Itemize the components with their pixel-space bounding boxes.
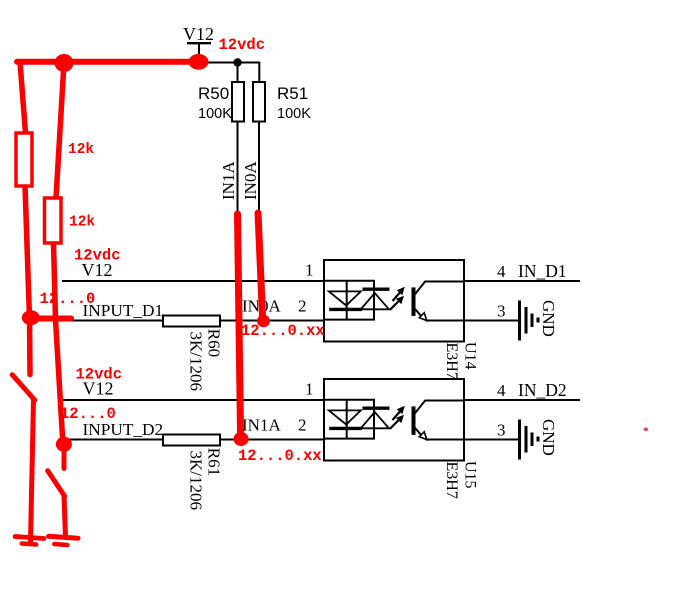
svg-text:12...0.xx: 12...0.xx bbox=[238, 447, 322, 465]
svg-text:4: 4 bbox=[497, 262, 506, 281]
ground red (channel 2) bbox=[49, 536, 79, 538]
red junction dot at V12 bbox=[189, 54, 209, 70]
U14 light arrow upper bbox=[393, 287, 405, 301]
U15 phototransistor bbox=[414, 401, 465, 440]
U15 LED diode (down) bbox=[329, 410, 362, 428]
optocoupler U14 E3H7 box bbox=[324, 260, 479, 380]
resistor R60 3K/1206 bbox=[163, 316, 224, 392]
wire pin 4 IN_D2 bbox=[464, 399, 580, 401]
svg-text:IN1A: IN1A bbox=[219, 161, 238, 200]
svg-text:3: 3 bbox=[497, 421, 506, 440]
red junction dot at INPUT_D2 bbox=[56, 437, 72, 452]
ground symbol (channel 1) bbox=[520, 300, 559, 341]
ground symbol (channel 2) bbox=[520, 419, 559, 460]
svg-text:12...0: 12...0 bbox=[60, 405, 116, 423]
svg-text:GND: GND bbox=[539, 300, 558, 337]
resistor R61 3K/1206 bbox=[163, 435, 224, 511]
wire pin 3 to ground bbox=[464, 320, 519, 322]
wire R50 bottom down (net IN1A) bbox=[237, 121, 239, 217]
svg-text:12k: 12k bbox=[68, 142, 94, 158]
svg-text:IN0A: IN0A bbox=[241, 161, 260, 200]
red annotations: drawn over schematic bbox=[12, 62, 262, 545]
U14 phototransistor bbox=[414, 282, 465, 321]
U14 LED diode (down) bbox=[329, 291, 362, 309]
wire red vertical branch 2 bbox=[54, 63, 65, 437]
svg-text:E3H7: E3H7 bbox=[443, 462, 460, 499]
ground red (channel 1) bbox=[15, 537, 44, 539]
wire red left vertical branch 1 bbox=[20, 62, 30, 375]
svg-text:12k: 12k bbox=[69, 215, 95, 231]
wire pin 4 IN_D1 bbox=[464, 280, 580, 282]
wire red IN1A vertical bbox=[238, 214, 241, 433]
resistor 12k (branch 1) bbox=[16, 133, 32, 186]
svg-text:V12: V12 bbox=[183, 24, 214, 44]
optocoupler U15 E3H7 box bbox=[324, 379, 479, 499]
svg-text:12vdc: 12vdc bbox=[74, 247, 121, 265]
svg-text:U15: U15 bbox=[462, 461, 479, 489]
svg-text:R61: R61 bbox=[205, 448, 224, 476]
red junction dot at INPUT_D1 bbox=[22, 310, 40, 325]
junction dot at V12 node bbox=[233, 58, 241, 66]
svg-text:R51: R51 bbox=[277, 84, 308, 103]
svg-text:U14: U14 bbox=[462, 342, 479, 370]
svg-text:2: 2 bbox=[298, 297, 307, 316]
wire red below switch 1 bbox=[31, 400, 34, 541]
resistor R51 bbox=[253, 82, 311, 122]
svg-text:3: 3 bbox=[497, 302, 506, 321]
wire from V12 node to R50/R51 tops bbox=[199, 62, 259, 83]
svg-text:IN_D1: IN_D1 bbox=[518, 261, 567, 281]
svg-text:100K: 100K bbox=[277, 106, 311, 122]
switch blade (channel 2) bbox=[48, 471, 65, 497]
svg-text:12vdc: 12vdc bbox=[219, 36, 266, 54]
U15 LED diode (up) bbox=[361, 408, 390, 428]
red speck right bbox=[643, 428, 648, 432]
wire pin 3 to ground bbox=[464, 439, 519, 441]
svg-text:1: 1 bbox=[305, 380, 314, 399]
U14 light arrow lower bbox=[390, 296, 404, 310]
red dot at IN1A pin 2 bbox=[234, 432, 249, 446]
wire V12 rail to pin 1 of U15 bbox=[62, 399, 324, 401]
svg-text:1: 1 bbox=[305, 261, 314, 280]
svg-text:4: 4 bbox=[497, 381, 506, 400]
wire red below switch 2 bbox=[64, 496, 66, 536]
wire INPUT_D1 to R60 bbox=[62, 320, 170, 322]
svg-text:12...0.xx: 12...0.xx bbox=[241, 322, 325, 340]
svg-text:12...0: 12...0 bbox=[40, 290, 96, 308]
wire red top horizontal to V12 node bbox=[17, 59, 197, 65]
power symbol V12 (top) bbox=[183, 24, 214, 63]
U14 internal input rails bbox=[324, 281, 375, 320]
svg-text:GND: GND bbox=[539, 419, 558, 456]
red dot at IN0A pin 2 bbox=[257, 315, 270, 327]
svg-text:12vdc: 12vdc bbox=[76, 366, 123, 384]
wire R60 to pin 2 of U14 bbox=[215, 320, 324, 322]
wire red stub below dot (channel 2) bbox=[62, 444, 67, 469]
resistor R50 bbox=[198, 82, 244, 122]
svg-text:3K/1206: 3K/1206 bbox=[187, 451, 206, 511]
U15 light arrow upper bbox=[393, 406, 405, 420]
svg-text:R50: R50 bbox=[198, 84, 229, 103]
svg-text:2: 2 bbox=[298, 416, 307, 435]
switch blade (channel 1) bbox=[12, 375, 35, 400]
U15 light arrow lower bbox=[390, 415, 404, 429]
svg-text:E3H7: E3H7 bbox=[443, 343, 460, 380]
svg-text:R60: R60 bbox=[205, 329, 224, 357]
red junction dot top-left bbox=[55, 54, 74, 72]
wire red IN0A vertical bbox=[258, 213, 263, 316]
wire V12 rail to pin 1 of U14 bbox=[62, 280, 324, 282]
wire red stub to INPUT_D1 bbox=[31, 316, 71, 322]
svg-text:3K/1206: 3K/1206 bbox=[187, 332, 206, 392]
svg-text:IN_D2: IN_D2 bbox=[518, 380, 567, 400]
U15 internal input rails bbox=[324, 400, 375, 439]
wire INPUT_D2 to R61 bbox=[62, 439, 170, 441]
U14 LED diode (up) bbox=[361, 289, 390, 309]
resistor 12k (branch 2) bbox=[45, 198, 62, 243]
svg-text:100K: 100K bbox=[198, 106, 232, 122]
svg-text:IN1A: IN1A bbox=[242, 416, 281, 435]
wire R51 bottom down (net IN0A) bbox=[258, 121, 260, 216]
wire R61 to pin 2 of U15 bbox=[215, 439, 324, 441]
